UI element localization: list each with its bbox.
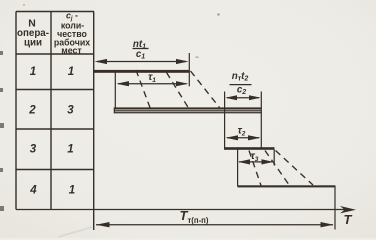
svg-text:1: 1 — [30, 66, 36, 78]
svg-text:1: 1 — [68, 66, 74, 78]
arrow tau1 — [118, 83, 187, 85]
dashed transfer op3-op4 b — [265, 151, 290, 186]
table row 1: 1 | 1 — [30, 66, 74, 78]
table row 4: 4 | 1 — [29, 185, 75, 197]
scan specks — [23, 4, 220, 58]
tick right of nt1/c1 — [188, 53, 190, 86]
vertical start of op2 — [114, 72, 116, 109]
scan edge marks — [0, 51, 4, 211]
operation 4 bar — [238, 185, 336, 187]
dashed transfer op3-op4 a — [249, 151, 261, 186]
table grid — [16, 12, 94, 231]
vertical end of op4 — [334, 186, 336, 230]
dashed transfer op3-op4 c — [276, 151, 314, 186]
tick left of op3 section — [224, 92, 226, 149]
svg-text:3: 3 — [30, 144, 37, 156]
table header col1: N операции — [17, 19, 49, 49]
svg-text:1: 1 — [67, 144, 73, 156]
bottom-left smudge — [58, 227, 92, 237]
table header col2: cj - количество рабочих мест — [54, 11, 90, 56]
table row 3: 3 | 1 — [30, 144, 74, 156]
arrow tau3 — [239, 161, 272, 163]
dashed transfer op1-op2 a — [136, 70, 151, 109]
operation 1 bar — [93, 70, 190, 73]
svg-text:2: 2 — [28, 105, 36, 117]
tick right of tau3 — [273, 150, 275, 166]
dashed transfer op1-op2 b — [167, 73, 189, 109]
arrow tau2 — [227, 137, 259, 139]
svg-text:3: 3 — [67, 105, 74, 117]
arrow nt1/c1 span — [97, 61, 186, 63]
arrow nT t2/c2 span — [227, 97, 259, 99]
svg-text:ции: ции — [24, 38, 42, 49]
label nT t2/c2 fraction — [232, 71, 249, 96]
operation 3 bar — [224, 147, 275, 150]
label nt1/c1 fraction — [133, 39, 146, 61]
dashed transfer op1-op2 c — [191, 71, 220, 108]
svg-text:мест: мест — [61, 46, 82, 56]
arrow T cycle total — [96, 224, 333, 226]
table row 2: 2 | 3 — [28, 105, 74, 117]
svg-text:1: 1 — [69, 185, 75, 197]
tick right end of op2 — [260, 92, 262, 149]
operation 2 bar (3 workplaces, 3 lines) — [114, 107, 262, 113]
time axis — [16, 209, 346, 211]
vertical start of op4 — [237, 149, 239, 187]
svg-text:4: 4 — [29, 185, 37, 197]
svg-text:T: T — [344, 212, 353, 227]
